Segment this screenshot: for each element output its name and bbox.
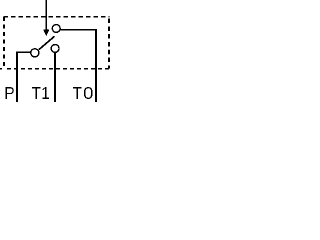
- svg-text:P: P: [4, 83, 15, 102]
- svg-text:T: T: [31, 83, 41, 102]
- svg-text:0: 0: [83, 82, 94, 102]
- svg-text:T: T: [72, 83, 82, 102]
- svg-text:1: 1: [41, 83, 50, 102]
